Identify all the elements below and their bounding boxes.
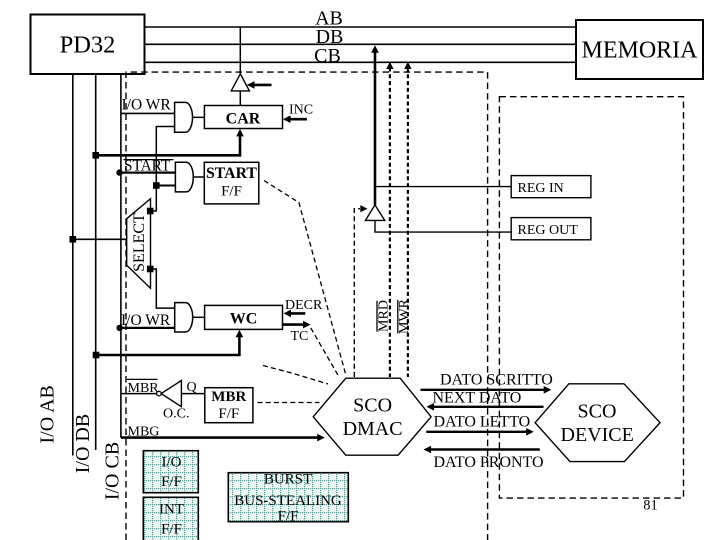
wire REG OUT to buffer xyxy=(375,220,511,232)
bus CB wire xyxy=(145,61,577,63)
control unit SCO DEVICE xyxy=(535,384,660,462)
wire select line to G1 second input xyxy=(156,127,174,212)
wire I/O WR to gate G1 xyxy=(121,112,175,114)
signal MWR dashed wire xyxy=(407,68,409,378)
wire buffer to CAR top xyxy=(239,91,241,106)
svg-text:I/O DB: I/O DB xyxy=(72,414,94,473)
svg-text:I/O CB: I/O CB xyxy=(102,442,124,500)
svg-text:INT: INT xyxy=(159,502,184,518)
wire I/O DB to CAR data input (thick) xyxy=(96,135,240,156)
tri-state buffer U2 (REG OUT to DB) xyxy=(365,205,384,221)
device dashed boundary box xyxy=(499,97,683,498)
wire I/O DB to WC data input (thick) xyxy=(96,335,239,355)
arrow DECR into WC xyxy=(289,312,305,315)
PD32 CPU box xyxy=(31,15,145,75)
flip-flop MBR F/F xyxy=(205,388,253,423)
wire I/O AB vertical bus xyxy=(72,74,74,456)
svg-text:TC: TC xyxy=(291,329,309,344)
register REG OUT xyxy=(511,218,591,240)
junction node on I/O DB (WC data) xyxy=(93,352,100,359)
arrow TC out of WC xyxy=(283,323,306,326)
dashed control START F/F to SCO DMAC xyxy=(264,181,346,376)
dashed control MBR to SCO DMAC xyxy=(263,366,328,385)
wire I/O WR to gate G3 xyxy=(120,327,175,329)
arrow NEXT DATO xyxy=(432,406,544,408)
wire I/O DB vertical bus xyxy=(95,74,97,450)
wire CAR buffer to AB xyxy=(239,27,241,74)
svg-text:MRD: MRD xyxy=(376,300,391,332)
svg-text:DATO PRONTO: DATO PRONTO xyxy=(434,454,544,471)
svg-text:MEMORIA: MEMORIA xyxy=(581,38,698,64)
svg-text:REG IN: REG IN xyxy=(518,181,564,196)
and-gate G1 (CAR load) xyxy=(175,102,193,132)
svg-text:START: START xyxy=(206,165,257,182)
svg-text:MBR: MBR xyxy=(211,389,246,405)
svg-text:F/F: F/F xyxy=(278,508,299,524)
DMAC dashed boundary box xyxy=(126,72,488,540)
junction node START on I/O CB xyxy=(116,169,122,175)
and-gate G2 (START set) xyxy=(175,162,193,192)
svg-text:CAR: CAR xyxy=(226,111,261,128)
svg-text:F/F: F/F xyxy=(218,406,239,422)
flip-flop BURST BUS-STEALING F/F xyxy=(228,473,348,522)
arrow INC into CAR xyxy=(289,118,307,121)
svg-text:WC: WC xyxy=(230,311,258,328)
svg-text:NEXT DATO: NEXT DATO xyxy=(433,390,522,407)
signal MRD dashed wire xyxy=(389,68,391,378)
svg-text:DEVICE: DEVICE xyxy=(561,424,634,446)
wire G2 output xyxy=(193,176,204,178)
wire MBG arrow to SCO DMAC xyxy=(121,436,319,439)
svg-text:BUS-STEALING: BUS-STEALING xyxy=(234,493,342,509)
svg-text:F/F: F/F xyxy=(221,184,242,200)
wire select line to G2 second input xyxy=(156,185,175,187)
register CAR xyxy=(204,106,282,129)
register WC xyxy=(205,305,283,329)
open-collector buffer (MBR) xyxy=(161,381,181,407)
decoder SELECT xyxy=(127,199,151,289)
flip-flop INT F/F xyxy=(143,497,198,540)
arrow DATO LETTO xyxy=(426,431,528,433)
wire MBR to I/O CB xyxy=(121,393,157,395)
bus AB wire xyxy=(145,26,577,28)
svg-text:INC: INC xyxy=(289,103,313,118)
junction node select to G2 xyxy=(153,182,160,189)
control unit SCO DMAC xyxy=(313,378,431,455)
junction node on I/O DB (CAR data) xyxy=(92,152,99,159)
svg-text:BURST: BURST xyxy=(264,472,312,488)
svg-text:I/O AB: I/O AB xyxy=(36,385,58,443)
wire I/O CB vertical bus xyxy=(120,74,122,438)
svg-text:SCO: SCO xyxy=(578,401,617,423)
svg-text:DATO SCRITTO: DATO SCRITTO xyxy=(440,372,553,389)
svg-text:SELECT: SELECT xyxy=(131,213,148,272)
wire buffer to MBR F/F xyxy=(181,393,204,395)
svg-text:I/O WR: I/O WR xyxy=(122,97,172,114)
arrow DATO SCRITTO xyxy=(421,389,546,391)
flip-flop START F/F xyxy=(204,162,258,204)
wire START to gate G2 xyxy=(120,172,176,174)
dashed control MBR F/F to SCO DMAC xyxy=(258,402,320,404)
svg-text:REG OUT: REG OUT xyxy=(518,223,579,238)
tri-state buffer U1 (CAR to AB) xyxy=(231,74,249,91)
svg-text:MWR: MWR xyxy=(397,298,412,334)
svg-text:I/O WR: I/O WR xyxy=(121,312,171,329)
wire G1 output to CAR xyxy=(192,116,204,118)
junction node SELECT output 1 xyxy=(147,208,154,215)
wire SELECT output 1 xyxy=(151,210,157,212)
svg-text:DMAC: DMAC xyxy=(343,418,403,440)
MEMORIA box xyxy=(576,20,703,79)
wire DB to REG (thick vertical) xyxy=(374,52,377,205)
arrow DATO PRONTO xyxy=(429,448,540,450)
junction node I/O WR on I/O CB xyxy=(116,325,122,331)
wire SELECT output 2 to gate G3 xyxy=(151,269,175,308)
svg-text:Q: Q xyxy=(187,380,197,395)
svg-text:F/F: F/F xyxy=(161,474,182,490)
dashed enable from SCO DMAC to REG buffer xyxy=(354,209,360,377)
and-gate G3 (WC load) xyxy=(175,303,193,332)
svg-text:PD32: PD32 xyxy=(60,32,116,59)
svg-text:F/F: F/F xyxy=(161,522,182,538)
dashed control TC to SCO DMAC xyxy=(311,328,339,376)
register REG IN xyxy=(511,176,591,198)
junction node on I/O AB (SELECT input) xyxy=(70,236,77,243)
svg-text:DATO LETTO: DATO LETTO xyxy=(434,414,531,431)
svg-text:81: 81 xyxy=(643,498,658,514)
junction node SELECT output 2 xyxy=(147,266,154,273)
bus DB wire xyxy=(145,43,577,45)
svg-text:I/O: I/O xyxy=(162,455,182,471)
wire I/O AB to SELECT xyxy=(73,238,127,240)
svg-text:SCO: SCO xyxy=(353,395,392,417)
svg-text:O.C.: O.C. xyxy=(163,407,189,422)
svg-text:CB: CB xyxy=(314,45,341,67)
wire to REG IN xyxy=(375,186,511,188)
wire G3 output to WC xyxy=(192,316,204,318)
flip-flop I/O F/F xyxy=(143,451,198,493)
enable arrow into CAR buffer xyxy=(252,84,272,87)
